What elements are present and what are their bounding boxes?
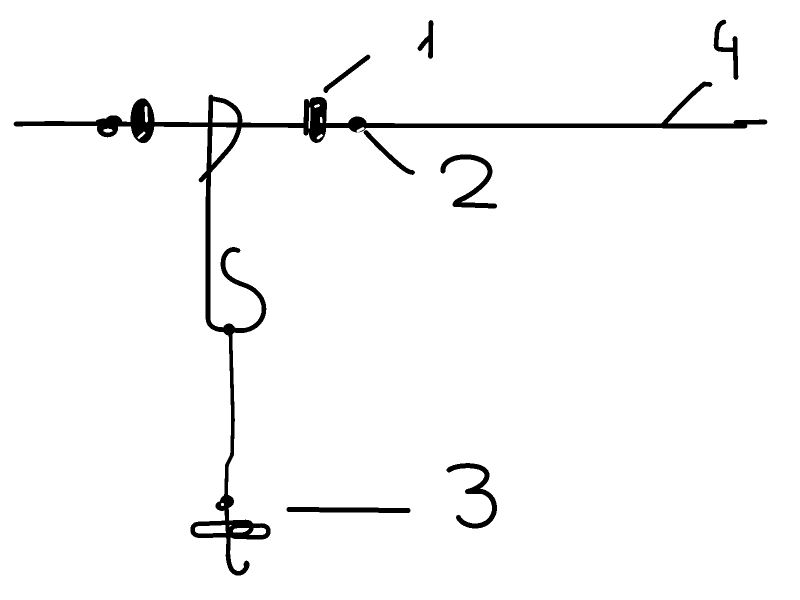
- dot at root of leader 1: [324, 88, 329, 93]
- bead B1: small loop component on wire (left): [97, 115, 122, 137]
- digit 3: [449, 466, 495, 526]
- leader line to callout 4: [664, 84, 710, 124]
- bead B2: filled scribbled blob on wire: [131, 98, 155, 143]
- spreader bar: right flat loop: [231, 525, 269, 537]
- spreader bar: left flat loop: [193, 522, 252, 536]
- drop line: thin vertical line down: [226, 335, 233, 496]
- junction dot J2 on wire (callout 2 target): [348, 117, 367, 133]
- hook P: bow of the P-shaped clamp: [201, 99, 240, 181]
- tail hook: curved foot at the bottom: [228, 555, 247, 573]
- digit 4: [716, 22, 736, 78]
- junction dot J1 at bottom of stem: [223, 324, 235, 336]
- drop line through spreader: [227, 505, 229, 555]
- digit 2: [443, 157, 495, 206]
- leader line to callout 1: [326, 57, 368, 89]
- hanger stem: vertical drop line from wire: [208, 97, 235, 330]
- digit 1: [420, 23, 431, 57]
- tip knob of tail hook: [244, 562, 250, 568]
- wire: main horizontal line: [16, 124, 745, 127]
- leader line to callout 2: [366, 133, 413, 173]
- S-hook: [223, 250, 264, 331]
- wire: overshoot stroke at right end: [736, 120, 765, 125]
- leader line to callout 3: [289, 510, 408, 511]
- knot: small scribbled loop on drop line: [216, 495, 235, 511]
- bead B3: scribbled insulator under callout 1: [306, 97, 327, 143]
